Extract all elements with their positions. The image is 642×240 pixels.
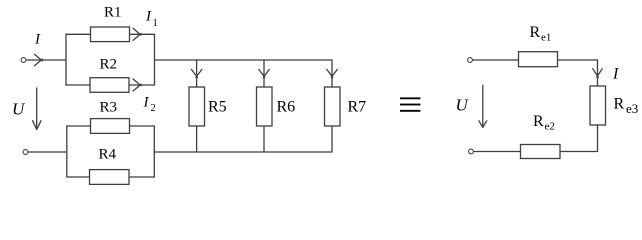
label Re3 xyxy=(614,96,639,117)
svg-text:R: R xyxy=(614,96,625,113)
svg-text:U: U xyxy=(456,96,470,115)
wire input bottom xyxy=(28,151,67,153)
node: right junction of R3/R4 block xyxy=(153,126,155,177)
wire bottom right bus xyxy=(560,151,598,153)
wire R3 left xyxy=(67,125,91,127)
resistor R3 xyxy=(91,119,130,134)
arrow I1 xyxy=(133,28,141,40)
arrow U right xyxy=(479,85,487,127)
terminal bottom-left xyxy=(23,150,28,155)
resistor R5 xyxy=(189,87,205,126)
arrow branch R5 xyxy=(191,69,202,77)
wire R2 right xyxy=(129,84,155,86)
resistor Re1 xyxy=(519,52,558,67)
wire R1 right xyxy=(130,33,155,35)
wire branch R5 top xyxy=(196,60,198,87)
arrow branch R6 xyxy=(259,69,270,77)
resistor R6 xyxy=(257,87,273,126)
wire branch R7 bottom xyxy=(331,126,333,152)
svg-text:U: U xyxy=(12,100,26,119)
wire input top xyxy=(26,59,66,61)
arrow I right xyxy=(593,69,603,78)
svg-text:e1: e1 xyxy=(541,32,551,44)
label Re1 xyxy=(530,24,552,44)
resistor R7 xyxy=(325,87,341,126)
terminal top-left xyxy=(21,58,26,63)
svg-text:2: 2 xyxy=(151,103,156,114)
wire R3 right xyxy=(130,125,155,127)
wire R4 left xyxy=(67,176,90,178)
svg-text:e2: e2 xyxy=(545,121,555,133)
wire R1 left xyxy=(66,33,91,35)
svg-text:R: R xyxy=(530,24,541,41)
svg-text:e3: e3 xyxy=(626,101,638,116)
arrow branch R7 xyxy=(327,69,338,77)
arrow I input xyxy=(35,54,43,65)
svg-text:R3: R3 xyxy=(100,100,118,116)
wire top bus xyxy=(155,59,333,61)
resistor R4 xyxy=(90,170,130,185)
svg-text:R4: R4 xyxy=(99,147,117,163)
wire branch R6 top xyxy=(263,60,265,87)
svg-text:R2: R2 xyxy=(100,57,118,73)
wire branch R6 bottom xyxy=(263,126,265,152)
terminal top-right xyxy=(468,58,473,63)
svg-text:R5: R5 xyxy=(208,99,227,116)
svg-text:1: 1 xyxy=(153,18,158,29)
node: right junction of R1/R2 block xyxy=(154,34,156,85)
wire branch R5 bottom xyxy=(196,126,198,152)
resistor Re3 xyxy=(590,86,606,125)
wire branch R7 top xyxy=(331,60,333,87)
svg-text:R6: R6 xyxy=(277,99,296,116)
wire Re1 left xyxy=(473,59,519,61)
label I1 xyxy=(145,9,158,30)
node: left junction of R1/R2 block xyxy=(65,34,67,85)
label Re2 xyxy=(533,113,555,133)
node: left junction of R3/R4 block xyxy=(66,126,68,177)
svg-text:R1: R1 xyxy=(104,5,122,21)
terminal bottom-right xyxy=(469,149,474,154)
svg-text:I: I xyxy=(612,66,619,83)
wire Re2 left xyxy=(474,151,521,153)
arrow I2 xyxy=(133,79,141,91)
wire corner down to Re3 xyxy=(597,60,599,86)
wire R2 left xyxy=(66,84,90,86)
svg-text:I: I xyxy=(34,32,41,48)
svg-text:I: I xyxy=(145,9,152,25)
resistor R2 xyxy=(90,78,129,93)
resistor R1 xyxy=(91,27,130,42)
arrow U left xyxy=(33,88,41,130)
equivalence symbol xyxy=(400,97,420,111)
svg-text:R: R xyxy=(533,113,544,130)
resistor Re2 xyxy=(521,145,561,159)
svg-text:R7: R7 xyxy=(348,99,367,116)
wire R4 right xyxy=(129,176,154,178)
wire Re3 bottom xyxy=(597,125,599,152)
wire bottom bus xyxy=(154,151,332,153)
label I2 xyxy=(143,95,156,115)
wire Re1 right xyxy=(558,59,598,61)
svg-text:I: I xyxy=(143,95,150,111)
